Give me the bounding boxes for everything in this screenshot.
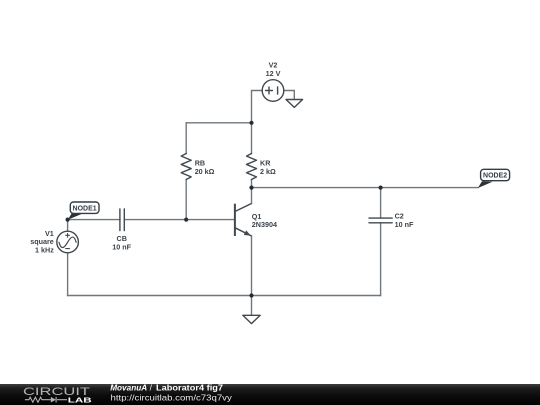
resistor KR body (247, 154, 257, 180)
source V1 body (57, 231, 79, 253)
node flag NODE1 (68, 202, 99, 220)
ground bottom (243, 315, 260, 323)
wire C2 bottom (380, 223, 382, 296)
svg-text:10 nF: 10 nF (112, 242, 131, 251)
node junction V2/top rail (249, 121, 253, 125)
svg-text:2N3904: 2N3904 (252, 220, 277, 229)
node junction RB base (184, 218, 188, 222)
footer bar (0, 384, 540, 405)
wire collector node to NODE2 (252, 187, 479, 189)
V2 plus sign (266, 87, 273, 94)
wire bottom rail (68, 295, 381, 297)
Q1 emitter arrow (244, 230, 251, 235)
wire CB to base (124, 219, 235, 221)
node junction C2 top (379, 186, 383, 190)
logo diode triangle (51, 397, 56, 403)
svg-text:MovanuA: MovanuA (110, 382, 147, 392)
V1 plus sign (66, 233, 70, 237)
wire C2 top (380, 188, 382, 219)
wire emitter down (251, 236, 253, 296)
wire ground stub bottom (251, 296, 253, 316)
wire NODE1 to CB (68, 219, 120, 221)
voltage source V2 body (262, 80, 284, 102)
wire V2 left lead (252, 91, 263, 123)
svg-text:20 kΩ: 20 kΩ (195, 167, 215, 176)
svg-text:CIRCUIT: CIRCUIT (23, 386, 90, 398)
node junction collector (249, 186, 253, 190)
svg-text:1 kHz: 1 kHz (35, 245, 54, 254)
svg-text:Laborator4 fig7: Laborator4 fig7 (156, 382, 223, 392)
V2 minus bar (277, 87, 279, 94)
capacitor C2 plates (369, 218, 392, 223)
svg-text:2 kΩ: 2 kΩ (260, 167, 276, 176)
svg-text:NODE1: NODE1 (73, 205, 97, 212)
wire V2 right lead to ground (284, 91, 295, 100)
wire top rail RB-KR (186, 122, 251, 124)
V1 minus sign (66, 248, 70, 250)
wire RB bottom (185, 180, 187, 220)
resistor RB body (181, 154, 191, 180)
wire collector up (251, 188, 253, 204)
capacitor CB plates (120, 209, 124, 231)
ground top-right (286, 100, 303, 108)
node junction NODE1 (66, 218, 70, 222)
svg-text:NODE2: NODE2 (483, 173, 507, 180)
wire V1 top (67, 220, 69, 232)
wire RB top (185, 123, 187, 154)
svg-text:http://circuitlab.com/c73q7vy: http://circuitlab.com/c73q7vy (111, 392, 233, 402)
node flag NODE2 (478, 169, 510, 188)
svg-text:LAB: LAB (68, 397, 92, 404)
wire V1 bottom (67, 253, 69, 296)
wire KR top (251, 123, 253, 154)
logo mini schematic: lead, resistor, diode, lead (25, 397, 67, 403)
svg-text:12 V: 12 V (266, 69, 281, 78)
node junction emitter rail (249, 293, 253, 297)
svg-text:10 nF: 10 nF (395, 220, 414, 229)
transistor Q1 (235, 204, 252, 237)
V1 sine wave (59, 237, 76, 248)
wire KR bottom to collector node (251, 180, 253, 188)
